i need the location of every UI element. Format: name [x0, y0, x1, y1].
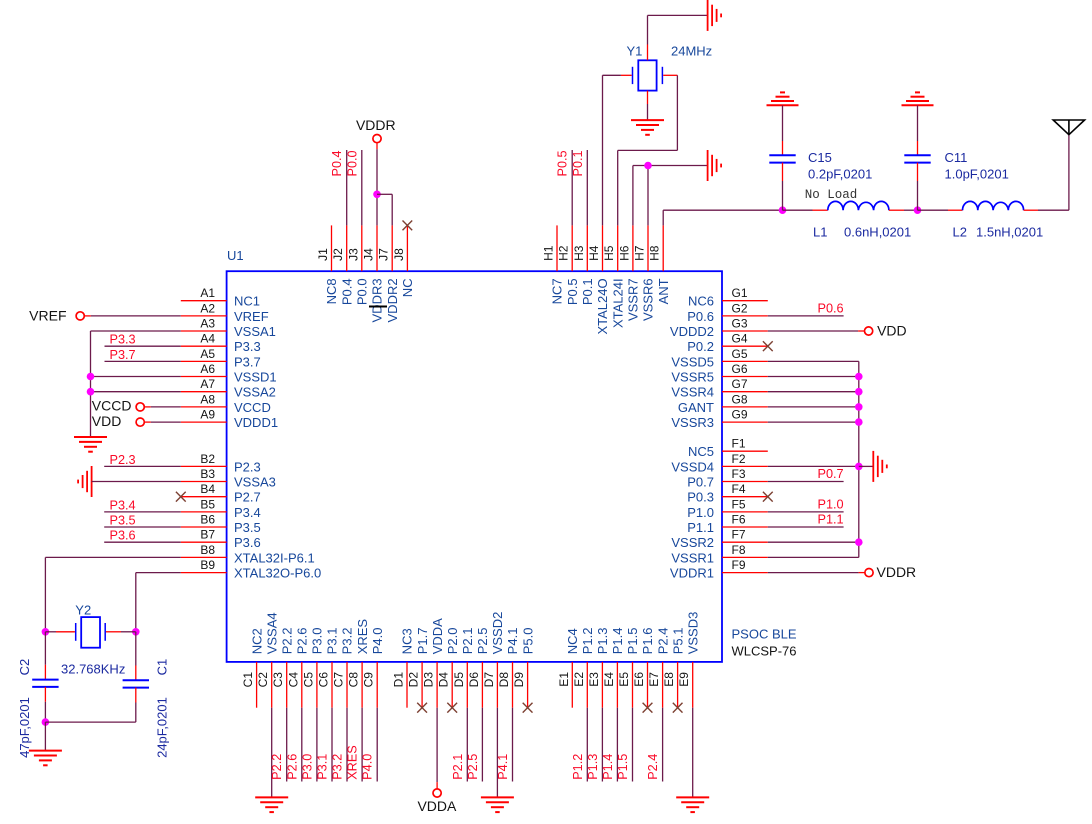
svg-text:VSSA4: VSSA4: [264, 612, 279, 654]
svg-text:D2: D2: [407, 672, 421, 688]
svg-text:VSSR4: VSSR4: [671, 385, 714, 400]
svg-text:C1: C1: [241, 672, 255, 688]
svg-text:P0.5: P0.5: [565, 278, 580, 305]
svg-text:P1.6: P1.6: [640, 628, 655, 655]
svg-text:D6: D6: [467, 672, 481, 688]
svg-text:VDDR3: VDDR3: [370, 278, 385, 322]
svg-text:L2: L2: [953, 225, 967, 240]
svg-text:P0.4: P0.4: [330, 150, 344, 176]
svg-text:B4: B4: [200, 482, 215, 496]
svg-text:H6: H6: [617, 245, 631, 261]
svg-text:WLCSP-76: WLCSP-76: [732, 643, 797, 658]
svg-text:E9: E9: [677, 672, 691, 687]
svg-text:NC6: NC6: [688, 294, 714, 309]
svg-text:J1: J1: [316, 248, 330, 261]
svg-text:VSSD4: VSSD4: [671, 459, 714, 474]
svg-text:NC1: NC1: [234, 294, 260, 309]
svg-text:VSSD1: VSSD1: [234, 370, 277, 385]
svg-text:P3.7: P3.7: [234, 354, 261, 369]
svg-text:24MHz: 24MHz: [671, 44, 712, 59]
svg-text:P0.5: P0.5: [556, 150, 570, 176]
svg-text:P2.7: P2.7: [234, 490, 261, 505]
svg-text:D7: D7: [482, 672, 496, 688]
svg-text:C6: C6: [317, 672, 331, 688]
svg-text:A8: A8: [200, 392, 215, 406]
svg-text:32.768KHz: 32.768KHz: [61, 662, 125, 677]
svg-text:P0.6: P0.6: [687, 309, 714, 324]
svg-text:J3: J3: [346, 248, 360, 261]
svg-text:P2.5: P2.5: [466, 754, 480, 780]
svg-text:D8: D8: [497, 672, 511, 688]
svg-text:G8: G8: [732, 392, 748, 406]
svg-text:47pF,0201: 47pF,0201: [17, 697, 32, 758]
svg-text:H2: H2: [557, 245, 571, 261]
svg-text:P1.2: P1.2: [580, 628, 595, 655]
svg-text:P3.5: P3.5: [110, 514, 136, 528]
svg-text:P0.0: P0.0: [345, 150, 359, 176]
svg-text:P2.2: P2.2: [279, 628, 294, 655]
svg-text:P1.3: P1.3: [586, 754, 600, 780]
svg-text:NC5: NC5: [688, 444, 714, 459]
svg-text:VDDR2: VDDR2: [385, 278, 400, 322]
svg-text:C7: C7: [332, 672, 346, 688]
svg-text:J2: J2: [331, 248, 345, 261]
svg-text:J7: J7: [377, 248, 391, 261]
svg-text:D9: D9: [512, 672, 526, 688]
svg-text:P4.1: P4.1: [505, 628, 520, 655]
svg-text:G9: G9: [732, 408, 748, 422]
svg-text:VSSD2: VSSD2: [490, 612, 505, 655]
svg-text:P2.6: P2.6: [285, 754, 299, 780]
svg-text:F1: F1: [732, 437, 746, 451]
svg-text:VSSD3: VSSD3: [685, 612, 700, 655]
svg-text:XRES: XRES: [355, 619, 370, 655]
svg-text:F4: F4: [732, 482, 746, 496]
svg-text:F9: F9: [732, 558, 746, 572]
svg-text:VSSD5: VSSD5: [671, 354, 714, 369]
svg-text:B8: B8: [200, 543, 215, 557]
svg-text:VSSR5: VSSR5: [671, 370, 714, 385]
svg-text:P1.5: P1.5: [625, 628, 640, 655]
svg-text:P3.3: P3.3: [234, 339, 261, 354]
svg-text:P3.4: P3.4: [234, 505, 261, 520]
svg-text:U1: U1: [227, 248, 244, 263]
svg-text:E5: E5: [617, 672, 631, 687]
svg-text:P3.0: P3.0: [300, 754, 314, 780]
svg-text:P3.0: P3.0: [310, 628, 325, 655]
svg-text:1.0pF,0201: 1.0pF,0201: [945, 166, 1009, 181]
svg-text:NC4: NC4: [565, 628, 580, 654]
svg-text:VSSR7: VSSR7: [626, 278, 641, 321]
svg-text:P3.2: P3.2: [340, 628, 355, 655]
svg-text:B6: B6: [200, 513, 215, 527]
svg-text:C9: C9: [362, 672, 376, 688]
svg-text:NC: NC: [400, 278, 415, 297]
svg-text:B9: B9: [200, 558, 215, 572]
svg-text:C15: C15: [808, 150, 832, 165]
svg-text:XTAL32O-P6.0: XTAL32O-P6.0: [234, 566, 321, 581]
svg-text:ANT: ANT: [656, 278, 671, 304]
svg-text:G4: G4: [732, 332, 748, 346]
svg-text:G3: G3: [732, 317, 748, 331]
svg-text:P2.5: P2.5: [475, 628, 490, 655]
svg-text:D1: D1: [392, 672, 406, 688]
svg-text:P2.6: P2.6: [295, 628, 310, 655]
svg-text:XTAL24O: XTAL24O: [595, 278, 610, 334]
svg-text:A4: A4: [200, 332, 215, 346]
svg-text:P2.0: P2.0: [445, 628, 460, 655]
svg-text:D5: D5: [452, 672, 466, 688]
svg-text:G1: G1: [732, 286, 748, 300]
svg-text:XRES: XRES: [346, 745, 360, 780]
svg-text:J8: J8: [392, 248, 406, 261]
svg-text:NC8: NC8: [324, 278, 339, 304]
svg-text:P0.3: P0.3: [687, 490, 714, 505]
svg-text:E2: E2: [572, 672, 586, 687]
svg-text:P1.7: P1.7: [415, 628, 430, 655]
svg-text:VSSR3: VSSR3: [671, 415, 714, 430]
svg-text:P3.1: P3.1: [325, 628, 340, 655]
svg-text:F6: F6: [732, 513, 746, 527]
svg-text:P4.1: P4.1: [496, 754, 510, 780]
svg-text:C4: C4: [286, 672, 300, 688]
svg-text:P3.5: P3.5: [234, 520, 261, 535]
svg-text:0.2pF,0201: 0.2pF,0201: [808, 166, 872, 181]
svg-text:P2.1: P2.1: [460, 628, 475, 655]
svg-text:E3: E3: [587, 672, 601, 687]
svg-text:VDDD2: VDDD2: [670, 324, 714, 339]
svg-text:P1.2: P1.2: [571, 754, 585, 780]
svg-text:H3: H3: [572, 245, 586, 261]
svg-text:F8: F8: [732, 543, 746, 557]
svg-text:VSSA3: VSSA3: [234, 475, 276, 490]
svg-text:A5: A5: [200, 347, 215, 361]
svg-text:H1: H1: [542, 245, 556, 261]
svg-text:VCCD: VCCD: [92, 398, 132, 414]
svg-text:D4: D4: [437, 672, 451, 688]
svg-text:P2.3: P2.3: [110, 453, 136, 467]
svg-text:G5: G5: [732, 347, 748, 361]
svg-text:G2: G2: [732, 301, 748, 315]
svg-text:VREF: VREF: [29, 307, 66, 323]
svg-text:P3.6: P3.6: [110, 529, 136, 543]
svg-text:P1.4: P1.4: [610, 628, 625, 655]
svg-text:Y2: Y2: [75, 603, 91, 618]
svg-text:XTAL24I: XTAL24I: [610, 278, 625, 328]
svg-text:H8: H8: [648, 245, 662, 261]
svg-text:P5.1: P5.1: [670, 628, 685, 655]
svg-text:H4: H4: [587, 245, 601, 261]
svg-text:B2: B2: [200, 452, 215, 466]
svg-text:VDDA: VDDA: [430, 618, 445, 654]
svg-text:VSSR2: VSSR2: [671, 535, 714, 550]
svg-text:P3.1: P3.1: [316, 754, 330, 780]
svg-text:A7: A7: [200, 377, 215, 391]
svg-text:NC7: NC7: [550, 278, 565, 304]
svg-text:P1.5: P1.5: [616, 754, 630, 780]
svg-text:GANT: GANT: [678, 400, 714, 415]
svg-text:F5: F5: [732, 497, 746, 511]
svg-text:A9: A9: [200, 408, 215, 422]
svg-text:NC3: NC3: [400, 628, 415, 654]
svg-text:C5: C5: [301, 672, 315, 688]
svg-text:VDDR: VDDR: [877, 564, 917, 580]
svg-text:VDDA: VDDA: [417, 798, 457, 814]
svg-text:P4.0: P4.0: [361, 754, 375, 780]
svg-text:P2.1: P2.1: [451, 754, 465, 780]
svg-text:VDDR: VDDR: [356, 117, 396, 133]
svg-text:D3: D3: [422, 672, 436, 688]
svg-text:VDDR1: VDDR1: [670, 566, 714, 581]
svg-text:A6: A6: [200, 362, 215, 376]
svg-text:P0.7: P0.7: [687, 475, 714, 490]
svg-text:P1.4: P1.4: [601, 754, 615, 780]
svg-text:A1: A1: [200, 286, 215, 300]
svg-text:L1: L1: [813, 225, 827, 240]
svg-text:B5: B5: [200, 497, 215, 511]
svg-text:VDDD1: VDDD1: [234, 415, 278, 430]
svg-text:VSSR6: VSSR6: [641, 278, 656, 321]
svg-text:P2.3: P2.3: [234, 459, 261, 474]
svg-text:B7: B7: [200, 528, 215, 542]
svg-text:0.6nH,0201: 0.6nH,0201: [844, 225, 911, 240]
svg-text:1.5nH,0201: 1.5nH,0201: [976, 225, 1043, 240]
svg-text:F3: F3: [732, 467, 746, 481]
svg-text:E7: E7: [647, 672, 661, 687]
svg-text:G7: G7: [732, 377, 748, 391]
svg-text:P3.2: P3.2: [331, 754, 345, 780]
svg-text:XTAL32I-P6.1: XTAL32I-P6.1: [234, 550, 315, 565]
svg-text:P4.0: P4.0: [370, 628, 385, 655]
svg-text:24pF,0201: 24pF,0201: [155, 697, 170, 758]
svg-text:F7: F7: [732, 528, 746, 542]
svg-text:No Load: No Load: [805, 188, 858, 202]
svg-text:E6: E6: [632, 672, 646, 687]
svg-text:P0.1: P0.1: [580, 278, 595, 305]
svg-text:P0.0: P0.0: [355, 278, 370, 305]
svg-text:P1.0: P1.0: [817, 498, 843, 512]
svg-text:P3.3: P3.3: [110, 333, 136, 347]
svg-text:VDD: VDD: [92, 413, 122, 429]
svg-text:NC2: NC2: [249, 628, 264, 654]
svg-text:F2: F2: [732, 452, 746, 466]
svg-text:Y1: Y1: [627, 44, 643, 59]
svg-text:C8: C8: [347, 672, 361, 688]
svg-text:G6: G6: [732, 362, 748, 376]
svg-text:P2.2: P2.2: [270, 754, 284, 780]
svg-text:P0.6: P0.6: [817, 302, 843, 316]
svg-text:E1: E1: [557, 672, 571, 687]
svg-text:P2.4: P2.4: [655, 628, 670, 655]
svg-text:E4: E4: [602, 672, 616, 687]
svg-text:VDD: VDD: [877, 323, 907, 339]
svg-text:P1.3: P1.3: [595, 628, 610, 655]
svg-text:P0.2: P0.2: [687, 339, 714, 354]
svg-text:P3.7: P3.7: [110, 348, 136, 362]
svg-text:VSSR1: VSSR1: [671, 550, 714, 565]
svg-text:P2.4: P2.4: [646, 754, 660, 780]
svg-text:C2: C2: [17, 659, 32, 676]
svg-text:P1.1: P1.1: [687, 520, 714, 535]
svg-text:P1.0: P1.0: [687, 505, 714, 520]
svg-text:H7: H7: [633, 245, 647, 261]
svg-text:P3.6: P3.6: [234, 535, 261, 550]
svg-text:A2: A2: [200, 301, 215, 315]
svg-text:E8: E8: [662, 672, 676, 687]
svg-text:VSSA1: VSSA1: [234, 324, 276, 339]
svg-text:C2: C2: [256, 672, 270, 688]
svg-text:J4: J4: [362, 248, 376, 261]
svg-text:A3: A3: [200, 317, 215, 331]
svg-text:VCCD: VCCD: [234, 400, 271, 415]
svg-text:PSOC BLE: PSOC BLE: [732, 627, 797, 642]
svg-text:P0.1: P0.1: [571, 150, 585, 176]
svg-text:C11: C11: [945, 150, 968, 165]
svg-text:P5.0: P5.0: [520, 628, 535, 655]
svg-text:P1.1: P1.1: [817, 513, 843, 527]
svg-text:P3.4: P3.4: [110, 498, 136, 512]
svg-text:VREF: VREF: [234, 309, 269, 324]
svg-text:C3: C3: [271, 672, 285, 688]
svg-text:H5: H5: [602, 245, 616, 261]
svg-text:B3: B3: [200, 467, 215, 481]
svg-text:P0.4: P0.4: [339, 278, 354, 305]
svg-text:VSSA2: VSSA2: [234, 385, 276, 400]
svg-text:P0.7: P0.7: [817, 467, 843, 481]
svg-text:C1: C1: [155, 659, 170, 676]
